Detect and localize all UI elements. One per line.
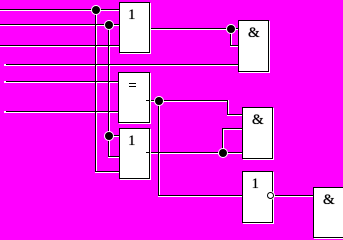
node D6 on wire B1 output bbox=[227, 25, 235, 33]
wire branch from node D6 to AND gate B5 input 2 bbox=[230, 45, 239, 46]
wire L6 leading white pixel bbox=[4, 111, 6, 112]
wire V5: vertical from node D4 up to B6 input 2 bbox=[222, 128, 223, 153]
label = of gate B4 (top bar) bbox=[129, 83, 136, 85]
node D3 on wire V2 bbox=[105, 132, 113, 140]
and-gate B7 (clipped at right edge) bbox=[313, 187, 343, 238]
wire V6 white shadow bbox=[231, 28, 232, 46]
wire B6-in1 white shadow bbox=[227, 115, 243, 116]
wire L5 white shadow bbox=[4, 82, 119, 83]
node D4 on wire B2 output bbox=[219, 149, 227, 157]
wire V3 white shadow bbox=[159, 100, 160, 196]
wire B4 output to node D5 bbox=[150, 100, 228, 101]
wire L4: input 4 to AND gate B5 bbox=[5, 64, 239, 65]
wire into AND gate B6 input 2 bbox=[222, 128, 243, 129]
wire B3-output white shadow bbox=[274, 196, 313, 197]
wire B3-input white shadow bbox=[158, 196, 243, 197]
wire B4-output white shadow bbox=[150, 101, 228, 102]
wire L1: input 1 to OR gate B1 bbox=[0, 9, 120, 10]
wire L6 white shadow bbox=[4, 112, 119, 113]
label 1 of gate B1 bbox=[128, 8, 136, 23]
wire L3: input 3 to OR gate B1 bbox=[0, 45, 120, 46]
wire V6: vertical from node D6 down to B5 input 2 bbox=[230, 28, 231, 46]
wire V4 white shadow bbox=[228, 100, 229, 115]
wire L5 leading white pixel bbox=[4, 81, 6, 82]
node D1 on wire L1 bbox=[92, 6, 100, 14]
wire L2: input 2 to OR gate B1 bbox=[0, 24, 120, 25]
inversion bubble of gate B3 bbox=[267, 192, 274, 199]
and-gate B6 bbox=[242, 107, 273, 159]
wire V3: vertical from node D5 down bbox=[158, 100, 159, 196]
wire L6: input 6 to XNOR gate B4 bbox=[5, 111, 119, 112]
node D5 on wire B4 output bbox=[155, 97, 163, 105]
wire B1-output white shadow bbox=[150, 29, 239, 30]
wire V1: vertical from node D1 down bbox=[95, 9, 96, 172]
wire nub of B2 output inside box bbox=[146, 152, 150, 153]
wire dot3-branch white shadow bbox=[108, 136, 120, 137]
wire V1 white shadow bbox=[96, 9, 97, 172]
wire L4 leading white pixel bbox=[4, 64, 6, 65]
wire V2: vertical from node D2 down bbox=[108, 24, 109, 157]
wire V4: vertical step from B4 output down to B6 input 1 bbox=[227, 100, 228, 115]
wire B6-in2 white shadow bbox=[222, 129, 243, 130]
wire B2-output white shadow bbox=[150, 153, 243, 154]
wire V2-corner white shadow bbox=[108, 157, 120, 158]
node D2 on wire L2 bbox=[105, 21, 113, 29]
wire L3 white shadow bbox=[0, 46, 120, 47]
wire B3 output to AND gate B7 bbox=[274, 195, 313, 196]
wire L2 white shadow bbox=[0, 25, 120, 26]
wire V1 corner into OR gate B2 input 3 bbox=[95, 171, 120, 172]
label = of gate B4 (bottom bar) bbox=[129, 86, 136, 88]
label & of gate B5 bbox=[248, 26, 260, 41]
label & of gate B7 bbox=[323, 193, 335, 208]
or-gate B2 bbox=[119, 128, 150, 179]
wire L4 white shadow bbox=[4, 65, 239, 66]
wire from V3 into NOT gate B3 input bbox=[158, 195, 243, 196]
wire into AND gate B6 input 1 bbox=[227, 114, 243, 115]
or-gate B1 bbox=[119, 2, 150, 53]
wire V2 corner into OR gate B2 input 2 bbox=[108, 156, 120, 157]
wire branch from node D3 to OR gate B2 input 1 bbox=[108, 135, 120, 136]
wire V5 white shadow bbox=[223, 128, 224, 153]
and-gate B5 bbox=[238, 20, 269, 72]
not-gate B3 bbox=[242, 171, 273, 223]
wire B1 output to node D6 and AND gate B5 bbox=[150, 28, 239, 29]
label 1 of gate B3 bbox=[252, 177, 260, 192]
label 1 of gate B2 bbox=[128, 134, 136, 149]
wire B2 output to node D4 and AND gate B6 input 3 bbox=[150, 152, 243, 153]
wire V1-corner white shadow bbox=[95, 172, 120, 173]
xnor-gate B4 bbox=[118, 72, 150, 123]
wire L5: input 5 to XNOR gate B4 bbox=[5, 81, 119, 82]
wire nub of B4 output inside box bbox=[146, 100, 150, 101]
wire L1 white shadow bbox=[0, 10, 120, 11]
label & of gate B6 bbox=[252, 113, 264, 128]
wire V2 white shadow bbox=[109, 24, 110, 157]
wire dot6-branch white shadow bbox=[230, 46, 239, 47]
